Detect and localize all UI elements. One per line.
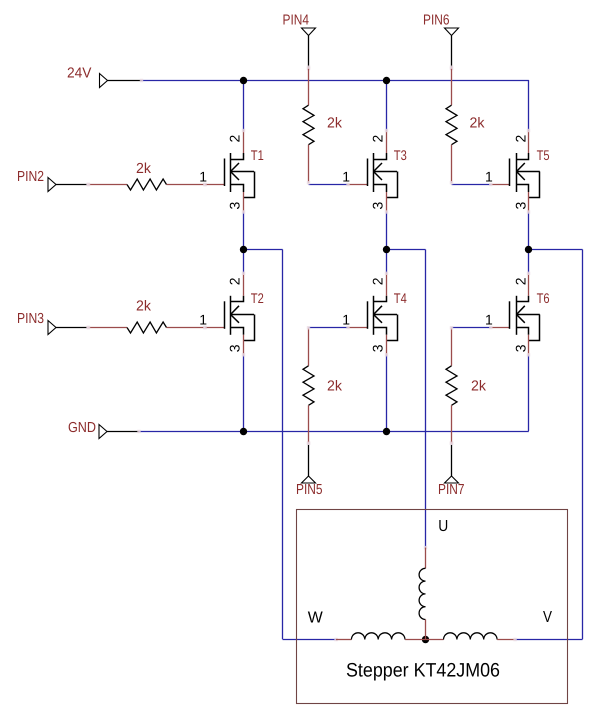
winding V xyxy=(426,639,444,641)
wire T6 source to GND rail xyxy=(528,355,530,431)
wire GND rail xyxy=(139,431,529,433)
svg-text:GND: GND xyxy=(68,420,96,436)
transistor T3 pin2 drain lead xyxy=(386,131,388,154)
transistor T3 xyxy=(367,159,369,187)
transistor T5 pin3 source lead xyxy=(528,192,530,212)
svg-text:2k: 2k xyxy=(470,116,486,132)
svg-text:1: 1 xyxy=(342,311,350,327)
svg-text:T4: T4 xyxy=(394,290,407,306)
transistor T2 pin2 drain lead xyxy=(243,273,245,296)
svg-text:3: 3 xyxy=(227,202,243,210)
port PIN6 xyxy=(445,28,459,36)
wire T2 source to GND rail xyxy=(243,355,245,431)
junction 24V rail / T3 drain xyxy=(383,77,390,84)
transistor T3 pin1 gate wire xyxy=(348,184,367,186)
svg-text:T3: T3 xyxy=(394,147,407,163)
wire gate link PIN7 resistor to T6 xyxy=(452,327,491,329)
svg-text:1: 1 xyxy=(342,169,350,185)
port PIN7 xyxy=(445,476,459,483)
svg-text:2: 2 xyxy=(512,277,528,285)
port 24V xyxy=(100,74,108,88)
transistor T1 pin2 drain lead xyxy=(243,131,245,154)
wire gate link PIN4 resistor to T3 xyxy=(309,184,348,186)
svg-text:T2: T2 xyxy=(251,290,264,306)
svg-text:3: 3 xyxy=(370,202,386,210)
transistor T6 pin2 drain lead xyxy=(528,273,530,296)
transistor T1 pin3 source lead xyxy=(243,192,245,212)
wire 24V rail drop to T5 drain xyxy=(528,80,530,131)
transistor T6 pin3 source lead xyxy=(528,335,530,355)
svg-text:3: 3 xyxy=(512,202,528,210)
transistor T5 pin1 gate wire xyxy=(491,184,510,186)
wire phase W route xyxy=(243,249,283,251)
svg-text:PIN7: PIN7 xyxy=(438,482,465,498)
transistor T2 pin3 source lead xyxy=(243,335,245,355)
wire T3 source to phase node U xyxy=(386,212,388,250)
svg-text:PIN6: PIN6 xyxy=(423,13,450,29)
svg-text:3: 3 xyxy=(227,344,243,352)
junction motor star point xyxy=(422,636,429,643)
svg-text:24V: 24V xyxy=(67,66,92,82)
svg-text:1: 1 xyxy=(485,169,493,185)
svg-text:2k: 2k xyxy=(136,161,152,177)
winding W xyxy=(334,638,337,641)
svg-text:W: W xyxy=(308,610,324,627)
resistor R-PIN5 2k xyxy=(308,328,310,366)
transistor T1 xyxy=(224,159,226,187)
transistor T6 xyxy=(509,301,511,329)
wire phase V route xyxy=(529,249,583,251)
transistor T4 pin3 source lead xyxy=(386,335,388,355)
svg-text:U: U xyxy=(438,518,448,535)
port PIN3 xyxy=(48,321,56,335)
svg-text:1: 1 xyxy=(485,311,493,327)
svg-text:2k: 2k xyxy=(327,116,343,132)
transistor T1 pin1 gate wire xyxy=(205,184,224,186)
wire T6 drain from phase node xyxy=(528,250,530,274)
svg-text:2k: 2k xyxy=(327,379,343,395)
svg-text:2k: 2k xyxy=(136,299,152,315)
junction phase node V xyxy=(525,246,532,253)
junction phase node W xyxy=(240,246,247,253)
transistor T5 xyxy=(509,159,511,187)
wire gate link PIN6 resistor to T5 xyxy=(452,184,491,186)
svg-text:2: 2 xyxy=(227,135,243,143)
svg-text:1: 1 xyxy=(199,311,207,327)
transistor T3 pin3 source lead xyxy=(386,192,388,212)
motor outline box Stepper KT42JM06 xyxy=(297,510,568,704)
resistor R-PIN2 2k xyxy=(89,184,128,186)
port GND xyxy=(99,425,107,439)
wire T4 drain from phase node xyxy=(386,250,388,274)
wire T5 source to phase node V xyxy=(528,212,530,250)
transistor T5 pin2 drain lead xyxy=(528,131,530,154)
winding U xyxy=(424,546,427,549)
svg-text:1: 1 xyxy=(199,169,207,185)
transistor T2 xyxy=(224,301,226,329)
resistor R-PIN4 2k xyxy=(308,67,310,105)
junction 24V rail / T1 drain xyxy=(240,77,247,84)
junction GND rail / T2 source xyxy=(240,428,247,435)
port PIN4 xyxy=(302,28,316,36)
svg-text:2: 2 xyxy=(370,135,386,143)
svg-text:PIN4: PIN4 xyxy=(283,13,310,29)
svg-text:2: 2 xyxy=(512,135,528,143)
transistor T4 xyxy=(367,301,369,329)
svg-text:2: 2 xyxy=(227,277,243,285)
svg-text:T1: T1 xyxy=(251,147,264,163)
svg-text:2: 2 xyxy=(370,277,386,285)
wire T2 drain from phase node xyxy=(243,250,245,274)
svg-text:T5: T5 xyxy=(537,147,550,163)
resistor R-PIN6 2k xyxy=(451,67,453,105)
port PIN2 xyxy=(48,178,56,192)
transistor T4 pin1 gate wire xyxy=(348,327,367,329)
svg-text:T6: T6 xyxy=(537,290,550,306)
svg-text:3: 3 xyxy=(512,344,528,352)
svg-text:PIN3: PIN3 xyxy=(17,311,44,327)
transistor T6 pin1 gate wire xyxy=(491,327,510,329)
svg-text:PIN2: PIN2 xyxy=(17,169,44,185)
wire gate link PIN5 resistor to T4 xyxy=(309,327,348,329)
junction phase node U xyxy=(383,246,390,253)
svg-text:2k: 2k xyxy=(471,379,487,395)
svg-text:3: 3 xyxy=(370,344,386,352)
wire T3 drain xyxy=(386,80,388,131)
wire T4 source to GND rail xyxy=(386,355,388,431)
svg-text:V: V xyxy=(543,609,552,626)
transistor T2 pin1 gate wire xyxy=(205,327,224,329)
wire 24V rail xyxy=(142,80,529,82)
wire phase U route xyxy=(386,249,426,251)
wire T1 source to phase node W xyxy=(243,212,245,250)
resistor R-PIN7 2k xyxy=(451,328,453,366)
wire T1 drain xyxy=(243,80,245,131)
resistor R-PIN3 2k xyxy=(89,327,128,329)
svg-text:Stepper KT42JM06: Stepper KT42JM06 xyxy=(346,659,500,681)
port PIN5 xyxy=(302,476,316,483)
svg-text:PIN5: PIN5 xyxy=(296,482,323,498)
junction GND rail / T4 source xyxy=(383,428,390,435)
transistor T4 pin2 drain lead xyxy=(386,273,388,296)
